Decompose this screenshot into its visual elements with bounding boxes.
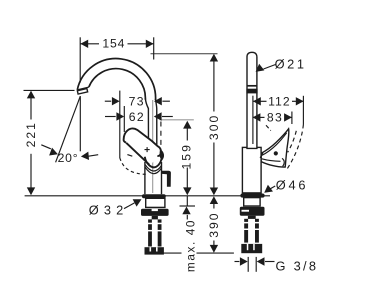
arrow 159 top	[183, 121, 191, 129]
leader Ø32	[124, 203, 135, 209]
spout tube (side)	[247, 52, 257, 148]
arrow on slant	[49, 148, 59, 159]
ext line tube axis	[252, 96, 254, 144]
arrow 221 top	[27, 91, 35, 99]
lower body (Ø32 section)	[144, 162, 146, 194]
arrow 73 right	[154, 97, 162, 105]
arrow 112 left	[253, 97, 261, 105]
escutcheon (side)	[240, 194, 264, 198]
fin inner lines	[262, 159, 281, 162]
leader to slant	[41, 145, 51, 149]
svg-text:62: 62	[129, 110, 145, 124]
aerator band	[246, 89, 257, 94]
dashed fin tilted position	[286, 125, 303, 171]
supply rods (side)	[244, 219, 248, 243]
handle lever (front)	[124, 128, 161, 164]
arrow 154 right	[146, 40, 154, 48]
arrow 62 right	[154, 112, 162, 120]
outlet bottom level line	[24, 89, 75, 91]
svg-text:20°: 20°	[58, 151, 79, 165]
mounting flange (side)	[240, 207, 265, 216]
lever swing dashed arc	[120, 158, 146, 174]
arrow 83 left	[253, 113, 261, 121]
fin front edge double line	[262, 133, 287, 156]
fin pivot dot	[274, 151, 278, 155]
arrow 221 bottom	[27, 187, 35, 195]
svg-text:Ø21: Ø21	[275, 56, 307, 71]
arrow G38 left	[240, 257, 248, 265]
arrow 300 top	[210, 54, 218, 62]
supply rods (front)	[148, 219, 152, 246]
arrow max40 bottom	[182, 207, 190, 215]
svg-text:112: 112	[268, 95, 290, 109]
arrow 73 left	[112, 97, 120, 105]
dim line 154	[80, 43, 99, 45]
riser column right edge	[156, 99, 157, 148]
hose end level line	[162, 252, 182, 254]
mounting plane line	[25, 195, 270, 197]
arrow 390 top	[210, 196, 218, 204]
arrow G38 right	[257, 257, 265, 265]
body (Ø46 section) side	[242, 147, 261, 193]
hose connector (side)	[241, 244, 262, 253]
top level line (spout top)	[151, 53, 218, 55]
svg-text:154: 154	[102, 37, 125, 51]
svg-text:390: 390	[207, 211, 221, 237]
shank box (side)	[244, 198, 260, 206]
riser column left edge	[145, 98, 148, 161]
center axis (gray) front view	[152, 97, 154, 193]
svg-text:Ø32: Ø32	[89, 202, 129, 217]
arrow 300 bottom	[210, 188, 218, 196]
slanted leg	[56, 96, 81, 162]
arrow 390 bottom	[210, 245, 218, 253]
ext line 62	[123, 106, 125, 132]
svg-text:G 3/8: G 3/8	[275, 259, 318, 274]
svg-text:159: 159	[180, 143, 194, 169]
escutcheon (front)	[142, 194, 166, 198]
minus mark on lever	[127, 155, 132, 157]
ext line 112 right	[302, 96, 304, 125]
arrow 154 left	[80, 40, 88, 48]
svg-text:221: 221	[24, 121, 38, 147]
arrow Ø32	[133, 196, 144, 207]
aerator line	[247, 85, 257, 87]
bell thin arcs	[145, 165, 162, 172]
raised lever dashed ghost	[160, 122, 162, 147]
ext line 73 / swing line	[119, 91, 121, 158]
shank box (front)	[146, 198, 165, 207]
tick line	[180, 205, 196, 207]
pull rod hook	[161, 171, 171, 187]
plus mark on lever	[145, 147, 150, 152]
fin root chamfer line	[260, 153, 263, 158]
vertical leg	[79, 96, 81, 151]
mounting flange (front)	[141, 209, 169, 216]
arrow 62 left	[116, 112, 124, 120]
arrow Ø46	[262, 185, 273, 196]
spout arc tube	[77, 59, 155, 101]
arrow Ø21	[253, 64, 264, 75]
cartridge bell (thick curve)	[145, 157, 162, 168]
ext line right (column axis)	[153, 37, 155, 59]
svg-text:300: 300	[207, 114, 221, 140]
lever rear hook (black)	[159, 149, 164, 160]
arrow 159 bottom	[183, 187, 191, 195]
arrow on vertical leg	[81, 152, 90, 161]
svg-text:Ø46: Ø46	[276, 178, 309, 193]
svg-text:83: 83	[267, 111, 283, 125]
ext line left (outlet axis)	[79, 37, 81, 82]
arrow 112 right	[296, 97, 304, 105]
handle top level line (gray)	[160, 119, 194, 121]
svg-text:73: 73	[129, 94, 145, 108]
hose connector (front)	[145, 247, 164, 254]
handle fin (side)	[261, 129, 289, 167]
arrow 83 right	[284, 113, 292, 121]
svg-text:max. 40: max. 40	[183, 219, 197, 272]
spout outlet cap	[77, 89, 87, 95]
